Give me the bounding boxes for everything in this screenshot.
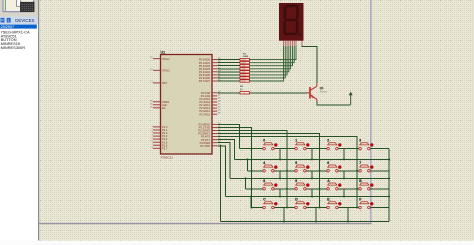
resistor R9 1k [240,92,250,95]
wire button row2 col1 drop [279,171,281,179]
wire P3.6 to keypad net line M2 [217,143,230,179]
junction [245,177,247,179]
junction [356,207,358,209]
svg-text:P0.7/AD7: P0.7/AD7 [199,79,211,83]
wire button row3 col1 drop [279,189,281,197]
junction [388,158,390,160]
wire button row3 col3 drop [343,189,345,197]
svg-text:5: 5 [295,161,297,165]
keypad row 3 terminal wire [246,188,390,190]
wire P0.3 to resistor [217,68,240,70]
wire button row2 col3 drop [343,171,345,179]
svg-text:Q1: Q1 [320,86,324,90]
transistor Q1 2N2907 PNP [307,83,317,101]
wire button row3 col2 drop [311,189,313,197]
panel border [38,0,40,245]
svg-text:2N2907: 2N2907 [1,24,15,29]
svg-text:1k: 1k [244,93,246,95]
wire P3.3 to keypad column 3 vertical [217,134,319,208]
keypad right side vertical wire [388,149,390,222]
wire resistor R6 to display segment pin [250,46,288,75]
junction [356,170,358,172]
wire M1 branch to row 2 line [247,159,249,170]
svg-text:DEVICES: DEVICES [15,18,34,23]
wire resistor R1 to display segment pin [250,46,297,60]
keypad bottom bus wire [221,221,390,223]
wire button row1 col1 drop [279,149,281,160]
left panel background [0,0,39,245]
button C [263,198,278,209]
button E [327,198,342,209]
keypad net line M1 [235,158,390,160]
svg-text:RST: RST [162,81,168,85]
svg-text:1: 1 [295,139,297,143]
microcontroller U1 AT89C51 body [161,55,213,155]
svg-text:L: L [8,19,10,23]
junction [247,158,249,160]
keypad row 4 terminal wire [251,207,389,209]
wire P3.2 to keypad column 2 vertical [217,131,287,208]
wire resistor R7 to display segment pin [250,46,286,78]
sheet border right edge [370,0,372,224]
preview pane [0,0,39,17]
junction [311,158,313,160]
bottom strip [0,241,474,245]
wire resistor R3 to display segment pin [250,46,293,66]
wire R9 to Q1 base [250,92,307,94]
wire button row1 col2 drop [311,149,313,160]
svg-text:4: 4 [263,161,265,165]
junction [311,196,313,198]
junction [251,207,253,209]
wire button row4 col1 drop [283,208,285,222]
wire resistor R4 to display segment pin [250,46,291,69]
button D [295,198,310,209]
sheet border bottom edge [38,223,372,225]
button 4 [263,161,278,172]
wire resistor R8 to display segment pin [250,46,284,81]
svg-text:P2.7/A15: P2.7/A15 [199,112,210,116]
keypad row 2 terminal wire [248,170,390,172]
junction [286,188,288,190]
wire M3 branch to row 4 line [250,197,252,208]
button A [327,179,342,190]
svg-text:7: 7 [359,161,361,165]
keypad net line M3 [226,196,390,198]
wire 7seg common anode to Q1 emitter [302,46,317,84]
device list [0,24,37,50]
junction [251,188,253,190]
resistor R6 300R [240,74,250,77]
svg-text:9: 9 [295,179,297,183]
junction [343,177,345,179]
button 3 [359,139,374,150]
wire Q1 collector to power terminal [317,101,351,105]
button 6 [327,161,342,172]
toolbar P L DEVICES [0,17,39,25]
resistor R7 300R [240,77,250,80]
wire P3.1 to keypad column 1 vertical [217,127,251,207]
junction [251,148,253,150]
junction [319,207,321,209]
junction [319,170,321,172]
resistor R4 300R [240,68,250,71]
wire resistor R2 to display segment pin [250,46,295,63]
wire P3.7 to keypad net line M3 [217,146,225,197]
resistor R1 300R [240,58,250,61]
svg-text:U1: U1 [161,51,166,55]
wire P0.0 to resistor [217,59,240,61]
wire P0.6 to resistor [217,77,240,79]
wire P2.0 to resistor R9 [217,92,240,94]
wire P0.7 to resistor [217,80,240,82]
wire P0.5 to resistor [217,74,240,76]
svg-text:XTAL1: XTAL1 [162,57,170,61]
wire P0.4 to resistor [217,71,240,73]
7seg pins [284,41,303,47]
junction [356,188,358,190]
resistor R8 300R [240,80,250,83]
svg-text:0: 0 [263,139,265,143]
svg-text:EA: EA [162,106,166,110]
svg-text:F: F [359,198,361,202]
wire button row1 col3 drop [343,149,345,160]
svg-text:XTAL2: XTAL2 [162,68,170,72]
button 9 [295,179,310,190]
junction [279,177,281,179]
svg-text:AT89C51: AT89C51 [161,156,174,160]
svg-text:MINRES300R: MINRES300R [1,45,26,50]
keypad row 1 terminal wire [240,148,390,150]
wire button row4 col3 drop [347,208,349,222]
junction [220,145,222,147]
junction [388,177,390,179]
junction [315,221,317,223]
wire P3.0 to keypad row 1 line [217,124,239,148]
wire keypad bus feed [220,146,222,222]
resistor R2 300R [240,62,250,65]
junction [251,170,253,172]
button F [359,198,374,209]
svg-text:300R: 300R [243,56,249,58]
svg-text:P1.7: P1.7 [162,146,168,150]
resistor R3 300R [240,65,250,68]
keypad net line M2 [230,177,389,179]
junction [283,221,285,223]
junction [279,158,281,160]
wire button row4 col2 drop [315,208,317,222]
junction [250,196,252,198]
junction [343,196,345,198]
junction [286,170,288,172]
wire resistor R5 to display segment pin [250,46,289,72]
junction [347,221,349,223]
svg-text:8: 8 [263,179,265,183]
MCU left pins [150,57,170,151]
button 1 [295,139,310,150]
button B [359,179,374,190]
button 0 [263,139,278,150]
svg-text:3: 3 [359,139,361,143]
junction [388,196,390,198]
wire button row2 col2 drop [311,171,313,179]
svg-text:2N2907: 2N2907 [320,91,328,93]
wire M2 branch to row 3 line [245,178,247,188]
svg-text:6: 6 [327,161,329,165]
7-segment display (7SEG-MPX1-CA) [279,3,304,41]
MCU right pins [198,58,221,148]
resistor R5 300R [240,71,250,74]
wire P3.4 to keypad column 4 vertical [217,137,357,208]
button 5 [295,161,310,172]
wire P0.2 to resistor [217,65,240,67]
button 8 [263,179,278,190]
button 2 [327,139,342,150]
svg-text:P3.7/RD: P3.7/RD [200,144,210,148]
junction [311,177,313,179]
junction [343,158,345,160]
svg-text:2: 2 [327,139,329,143]
power terminal arrow [349,92,353,105]
wire P0.1 to resistor [217,62,240,64]
button 7 [359,161,374,172]
junction [319,188,321,190]
junction [279,196,281,198]
wire P3.5 to keypad net line M1 [217,140,234,160]
junction [286,207,288,209]
